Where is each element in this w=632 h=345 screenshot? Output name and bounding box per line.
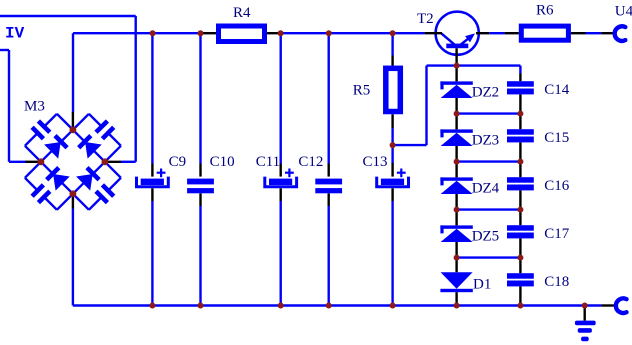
- svg-text:C16: C16: [544, 178, 570, 194]
- svg-text:C15: C15: [544, 130, 569, 146]
- svg-text:C9: C9: [169, 154, 187, 170]
- svg-text:R4: R4: [233, 5, 251, 21]
- svg-text:C11: C11: [256, 154, 280, 170]
- svg-text:DZ2: DZ2: [472, 84, 500, 100]
- svg-text:C18: C18: [544, 274, 569, 290]
- svg-text:DZ4: DZ4: [472, 180, 500, 196]
- svg-text:C14: C14: [544, 82, 570, 98]
- svg-text:C13: C13: [363, 154, 388, 170]
- svg-text:C10: C10: [210, 154, 235, 170]
- svg-text:DZ3: DZ3: [472, 132, 500, 148]
- svg-text:U4: U4: [615, 3, 632, 19]
- svg-text:DZ5: DZ5: [472, 228, 500, 244]
- svg-text:T2: T2: [417, 11, 434, 27]
- svg-text:M3: M3: [24, 99, 45, 115]
- svg-text:C12: C12: [298, 154, 323, 170]
- svg-text:D1: D1: [473, 276, 491, 292]
- svg-text:IV: IV: [5, 25, 25, 43]
- svg-text:R6: R6: [536, 3, 554, 19]
- svg-text:R5: R5: [353, 83, 371, 99]
- svg-text:C17: C17: [544, 226, 570, 242]
